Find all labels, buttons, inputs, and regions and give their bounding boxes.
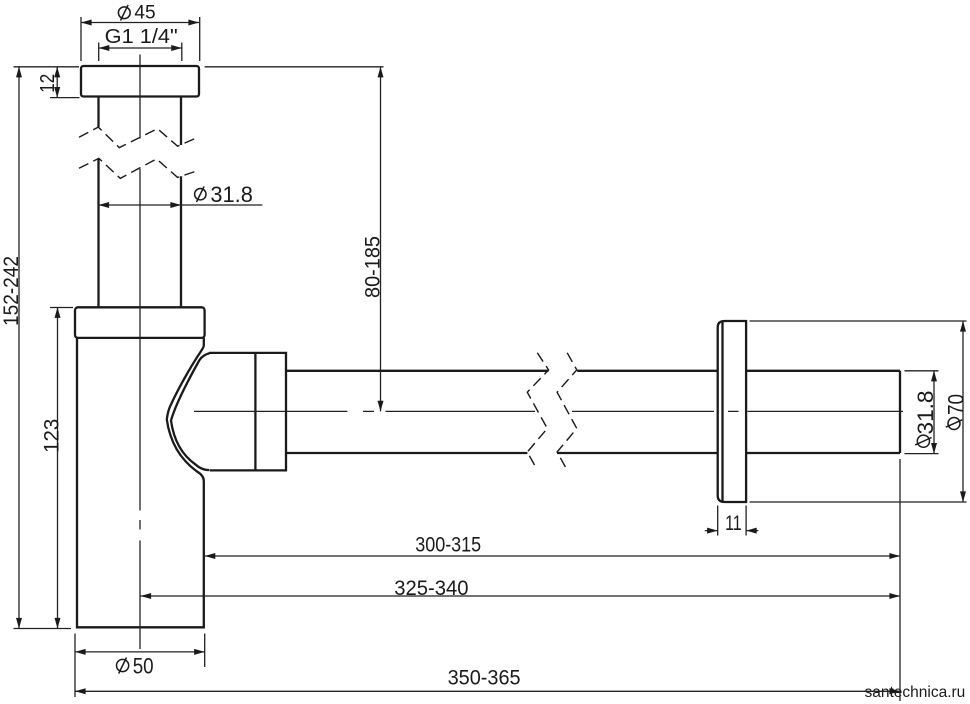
bottom left ext line — [14, 628, 72, 630]
arrows D31.8 mid — [99, 202, 182, 208]
svg-text:50: 50 — [133, 654, 154, 679]
horizontal pipe top edge — [286, 370, 900, 372]
body top flange — [75, 307, 205, 338]
arrows D31.8 right — [931, 371, 937, 454]
vertical pipe right edge — [180, 97, 182, 308]
dim line G1 1/4 — [99, 47, 182, 49]
ext lines D31.8 right — [905, 371, 939, 454]
svg-text:70: 70 — [944, 394, 969, 415]
ext lines D70 — [750, 321, 967, 502]
svg-text:11: 11 — [725, 511, 742, 535]
dim line D45 — [81, 22, 199, 24]
vertical pipe left edge — [97, 97, 99, 308]
dim line 152-242 — [18, 67, 20, 629]
svg-text:45: 45 — [134, 2, 155, 23]
wall flange inner line — [721, 322, 723, 502]
dim line D50 — [75, 651, 205, 653]
vertical pipe lower break zigzag — [79, 158, 196, 178]
wall flange — [718, 321, 746, 502]
dim line D70 — [962, 321, 964, 502]
arrows G1 1/4 — [99, 45, 182, 51]
svg-text:80-185: 80-185 — [361, 236, 385, 298]
svg-text:152-242: 152-242 — [0, 256, 23, 326]
ext lines G1 1/4 — [99, 43, 182, 62]
outlet nut divider — [254, 353, 256, 471]
label D70 — [946, 418, 962, 430]
dim line D31.8 right — [933, 371, 935, 454]
vertical pipe upper break zigzag — [79, 127, 196, 148]
label D50 — [117, 658, 129, 674]
label D45 — [118, 5, 130, 21]
dim line 350-365 — [75, 690, 900, 692]
dim line 123 — [57, 307, 59, 628]
arrows 12 — [54, 67, 60, 98]
svg-text:123: 123 — [41, 419, 64, 453]
ext lines 11 — [718, 506, 746, 536]
horizontal pipe bottom edge — [286, 452, 900, 454]
ext lines D50 — [75, 634, 205, 698]
ext line 123 top — [50, 307, 73, 309]
horizontal pipe right break zigzag — [557, 353, 577, 469]
body outline with outlet bell — [77, 338, 204, 627]
arrows D70 — [960, 321, 966, 502]
dim line 300-315 — [205, 555, 900, 557]
dim line 80-185 — [380, 67, 382, 412]
pipe end edge — [899, 371, 901, 453]
svg-text:300-315: 300-315 — [415, 534, 481, 557]
top left ext line — [14, 66, 80, 68]
svg-text:G1 1/4": G1 1/4" — [105, 25, 178, 48]
arrows 325-340 — [141, 593, 901, 599]
ext lines D45 — [81, 17, 200, 61]
arrows 350-365 — [75, 688, 900, 694]
arrows 152-242 — [16, 67, 22, 629]
svg-text:santechnica.ru: santechnica.ru — [865, 684, 966, 701]
ext line 80-185 top — [205, 66, 384, 68]
top flange cup — [81, 66, 199, 97]
svg-text:350-365: 350-365 — [448, 665, 521, 689]
svg-text:12: 12 — [37, 74, 59, 93]
dim tails 11 — [705, 530, 759, 532]
dim line 325-340 — [141, 595, 901, 597]
arrows 11 — [707, 528, 757, 534]
horizontal center line — [194, 410, 903, 412]
dim line 12 — [56, 67, 58, 98]
vertical center line — [139, 55, 141, 650]
horizontal pipe left break zigzag — [527, 353, 548, 469]
svg-text:325-340: 325-340 — [394, 576, 468, 600]
ext line pipe end — [899, 459, 901, 701]
arrows 123 — [55, 307, 61, 628]
arrows 80-185 — [378, 67, 384, 412]
label D31.8 mid — [195, 186, 206, 202]
svg-text:31.8: 31.8 — [210, 182, 253, 207]
arrows D45 — [81, 20, 199, 26]
outlet nut — [209, 353, 286, 471]
ext line 12 bottom — [50, 97, 80, 99]
svg-text:31.8: 31.8 — [913, 391, 938, 435]
dim line D31.8 mid — [99, 204, 263, 206]
arrows 300-315 — [205, 553, 900, 559]
outlet bell inner curve — [171, 353, 210, 470]
arrows D50 — [75, 649, 205, 655]
label D31.8 right — [915, 435, 931, 447]
